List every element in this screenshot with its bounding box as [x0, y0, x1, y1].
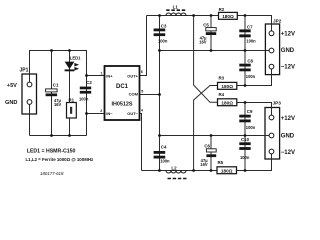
svg-text:C4: C4 — [161, 145, 167, 150]
svg-text:100n: 100n — [246, 125, 256, 130]
capacitor C7 — [239, 29, 250, 37]
svg-text:R1: R1 — [69, 98, 75, 103]
node C10 bottom — [244, 169, 247, 172]
wire IN- to DC1 pin 2 — [87, 113, 105, 115]
svg-text:5: 5 — [141, 90, 143, 94]
node GND-C7C8 — [244, 49, 247, 52]
node -12V branch — [192, 169, 195, 172]
node C1 bottom — [50, 134, 53, 137]
node LED top — [68, 49, 71, 52]
pin circles — [27, 31, 274, 154]
svg-text:+12V: +12V — [281, 31, 295, 37]
node IN- — [85, 112, 88, 115]
node C7 top — [244, 14, 247, 17]
svg-text:2: 2 — [100, 109, 102, 113]
wire left GND rail — [30, 135, 87, 137]
svg-text:JP1: JP1 — [20, 67, 29, 73]
node GND-C6 — [210, 134, 213, 137]
wire +12V top rail — [147, 16, 272, 32]
node C4 bottom — [158, 169, 161, 172]
svg-text:IN+: IN+ — [106, 73, 113, 78]
svg-text:C1: C1 — [53, 82, 59, 87]
pin JP3 +12V — [269, 115, 274, 120]
svg-text:R4: R4 — [219, 92, 225, 97]
connector JP1 — [22, 74, 37, 114]
wire C2 column — [86, 76, 88, 136]
pin JP3 -12V — [269, 149, 274, 154]
svg-text:R3: R3 — [219, 75, 225, 80]
svg-text:+12V: +12V — [281, 116, 295, 122]
node IN+ — [85, 74, 88, 77]
wire R3 to JP2 -12V — [237, 69, 272, 86]
svg-text:L2: L2 — [171, 165, 177, 170]
wire COM stub DC1 pin 5 — [140, 94, 160, 96]
svg-text:C2: C2 — [86, 80, 92, 85]
wire R4 to JP3 +12V — [237, 103, 272, 116]
LED LED1 — [65, 62, 80, 72]
wire top GND rail — [160, 50, 270, 52]
svg-text:L1,L2 = Ferrite 1000Ω @ 100MHz: L1,L2 = Ferrite 1000Ω @ 100MHz — [26, 157, 95, 162]
svg-text:180Ω: 180Ω — [222, 14, 234, 19]
svg-text:180Ω: 180Ω — [221, 100, 233, 105]
capacitor C8 — [239, 64, 250, 72]
svg-text:JP3: JP3 — [273, 101, 282, 106]
svg-text:IH0512S: IH0512S — [112, 102, 133, 108]
svg-text:OUT+: OUT+ — [127, 73, 138, 78]
svg-text:C10: C10 — [241, 137, 250, 142]
node R1 bottom — [68, 134, 71, 137]
svg-text:6: 6 — [141, 70, 143, 74]
capacitor C4 — [154, 151, 166, 159]
capacitor C9 — [239, 115, 250, 123]
node C1 top — [50, 49, 53, 52]
node GND-C5 — [210, 49, 213, 52]
capacitor C1 — [46, 89, 58, 96]
svg-text:L1: L1 — [173, 5, 179, 10]
wire C1 column — [51, 51, 53, 136]
wire +5V rail from JP1 to IN+ node — [30, 51, 87, 83]
svg-text:180177-618: 180177-618 — [40, 171, 64, 176]
wire bottom GND rail — [160, 135, 270, 137]
svg-text:C7: C7 — [247, 24, 253, 29]
node C8 bottom — [244, 84, 247, 87]
svg-text:100n: 100n — [240, 155, 250, 160]
svg-text:C8: C8 — [247, 58, 253, 63]
svg-text:100n: 100n — [79, 97, 89, 102]
connector JP3 — [265, 108, 280, 160]
wire C5 column — [210, 16, 212, 51]
svg-text:DC1: DC1 — [116, 84, 129, 90]
svg-text:100n: 100n — [246, 74, 256, 79]
svg-text:16V: 16V — [199, 39, 207, 44]
svg-text:R2: R2 — [219, 7, 225, 12]
svg-text:+5V: +5V — [7, 83, 17, 89]
wire OUT+ riser — [140, 16, 147, 76]
svg-text:−12V: −12V — [281, 150, 295, 156]
svg-text:180Ω: 180Ω — [221, 168, 233, 173]
svg-text:100n: 100n — [160, 159, 170, 164]
svg-text:IN−: IN− — [106, 111, 113, 116]
resistor R4 — [218, 99, 237, 106]
svg-text:R5: R5 — [218, 160, 224, 165]
svg-text:GND: GND — [5, 100, 17, 106]
wire IN+ to DC1 pin 1 — [87, 75, 105, 77]
svg-text:16V: 16V — [54, 102, 62, 107]
svg-text:180Ω: 180Ω — [221, 84, 233, 89]
svg-text:C6: C6 — [204, 144, 210, 149]
node GND-C9C10 — [244, 134, 247, 137]
capacitor C6 — [206, 149, 216, 157]
svg-text:1: 1 — [101, 71, 103, 75]
pin JP1 +5V — [27, 82, 32, 87]
inductor L1 — [166, 13, 186, 15]
resistor R5 — [217, 167, 237, 174]
DC-DC converter DC1 — [100, 66, 143, 120]
pin JP3 GND — [269, 133, 274, 138]
resistor R3 — [218, 82, 237, 89]
resistor R1 — [67, 103, 77, 119]
wire C9 C10 column — [244, 103, 246, 171]
resistor R2 — [219, 12, 238, 19]
svg-text:LED1: LED1 — [70, 56, 81, 61]
wire -12V branch to R3 (crossing) — [194, 86, 218, 171]
wire C6 column — [210, 136, 212, 171]
wire JP1 GND riser — [29, 104, 31, 135]
wire COM column — [159, 16, 161, 171]
pin JP2 +12V — [269, 31, 274, 36]
svg-text:JP2: JP2 — [273, 18, 282, 23]
node GND-C3 — [158, 49, 161, 52]
wire -12V bottom rail — [142, 154, 272, 171]
wire +12V branch to R4 (crossing) — [194, 16, 218, 103]
capacitor C2 — [80, 87, 91, 94]
node COM — [158, 93, 161, 96]
wire C7 C8 column — [244, 16, 246, 86]
node C3 top — [158, 14, 161, 17]
capacitor C3 — [154, 29, 166, 37]
pin JP1 GND — [27, 100, 32, 105]
node C9 top — [244, 101, 247, 104]
capacitor C5 — [206, 28, 216, 35]
connector JP2 — [265, 24, 279, 75]
node GND-C4 — [158, 134, 161, 137]
svg-text:C5: C5 — [203, 22, 209, 27]
node C6 bottom — [210, 169, 213, 172]
capacitor C10 — [239, 142, 250, 150]
svg-text:GND: GND — [281, 133, 295, 139]
svg-text:4: 4 — [141, 108, 143, 112]
pin JP2 -12V — [269, 64, 274, 69]
inductor L2 — [166, 171, 186, 174]
svg-text:COM: COM — [129, 92, 139, 97]
wire LED1/R1 column — [69, 51, 71, 136]
svg-text:100n: 100n — [158, 38, 168, 43]
svg-text:GND: GND — [281, 48, 295, 54]
node L1 right — [192, 14, 195, 17]
svg-text:LED1 = HSMR-C150: LED1 = HSMR-C150 — [27, 148, 76, 154]
svg-text:C9: C9 — [247, 109, 253, 114]
node C5 top — [210, 14, 213, 17]
pin JP2 GND — [269, 48, 274, 53]
wire OUT- riser — [140, 114, 142, 171]
svg-text:100n: 100n — [246, 38, 256, 43]
svg-text:16V: 16V — [200, 162, 208, 167]
svg-text:C3: C3 — [161, 23, 167, 28]
svg-text:OUT−: OUT− — [127, 111, 138, 116]
svg-text:−12V: −12V — [281, 65, 295, 71]
